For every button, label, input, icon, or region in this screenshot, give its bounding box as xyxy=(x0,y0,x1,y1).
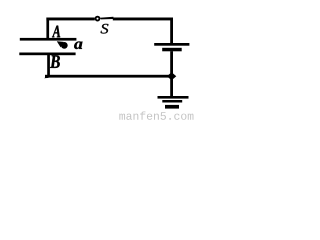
capacitor plate B xyxy=(19,53,75,56)
wire bottom horizontal xyxy=(45,75,172,78)
battery short plate (-) xyxy=(162,48,182,52)
label B xyxy=(50,55,60,68)
wire left vertical lower (plate B to bottom wire) xyxy=(47,55,50,78)
ground bar 2 (middle) xyxy=(162,100,182,103)
capacitor plate A xyxy=(20,38,77,41)
junction node dot xyxy=(167,72,176,80)
label A xyxy=(52,26,60,38)
switch S pivot circle xyxy=(96,17,100,21)
ground bar 3 (short thick) xyxy=(165,105,179,109)
wire top horizontal left segment xyxy=(46,18,94,21)
wire right vertical upper (to battery) xyxy=(170,18,173,44)
battery long plate (+) xyxy=(154,43,189,46)
charged particle at point a xyxy=(61,42,68,49)
switch S lever xyxy=(100,17,114,20)
label S xyxy=(101,24,109,34)
label a xyxy=(74,42,82,50)
wire right vertical lower (battery to ground) xyxy=(170,51,173,96)
wire top-left vertical (top wire to plate A) xyxy=(46,18,49,39)
watermark manfen5.com xyxy=(119,111,193,119)
ground bar 1 (widest) xyxy=(158,96,189,99)
wire top horizontal right segment xyxy=(113,18,173,21)
